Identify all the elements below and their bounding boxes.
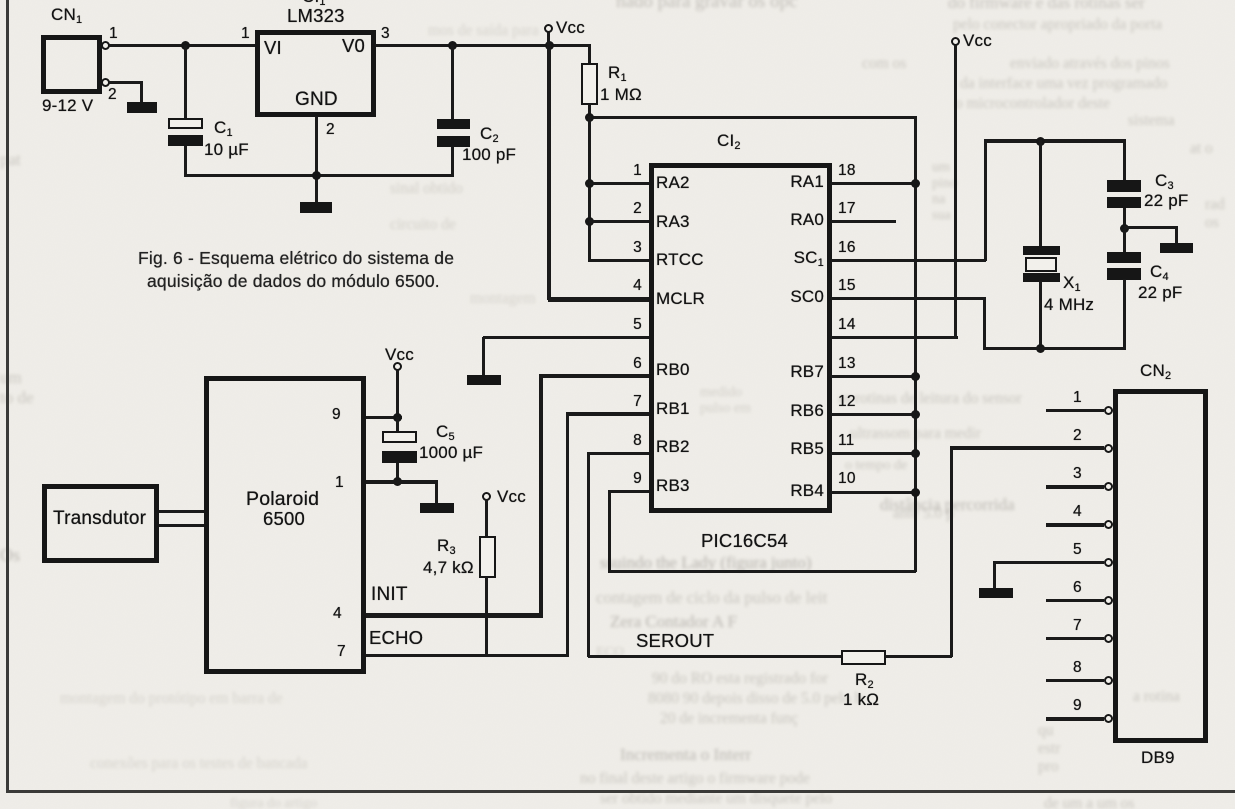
pin name RB2 xyxy=(656,438,690,456)
LM323 pin 3 number xyxy=(381,26,390,42)
junction node pin2 xyxy=(585,217,594,226)
CN2 pin 1 wire xyxy=(1046,409,1104,413)
label DB9 xyxy=(1141,749,1175,767)
junction node X1 top xyxy=(1036,137,1045,146)
CN1 pin 2 number xyxy=(108,87,117,103)
wire ground bus under regulator xyxy=(184,174,454,177)
pin number 2 xyxy=(620,201,642,217)
pin name RB7 xyxy=(770,363,824,381)
CN2 pin 5 wire xyxy=(993,561,1104,565)
junction node X1 bottom xyxy=(1036,344,1045,353)
wire C4 bottom stem xyxy=(1123,279,1126,350)
wire PIC pin 5 (Vss) xyxy=(483,336,650,340)
CN2 pin 6 circle xyxy=(1104,596,1113,605)
pin number 4 xyxy=(620,278,642,294)
wire PIC pin 18 xyxy=(831,182,916,185)
junction node C1 top xyxy=(181,41,190,50)
wire pin 5 down xyxy=(482,337,485,377)
LM323 pin 2 number xyxy=(326,122,335,138)
CN2 pin 8 circle xyxy=(1104,676,1113,685)
CN2 pin 9 number xyxy=(1073,698,1082,714)
pin name RA0 xyxy=(770,211,824,229)
wire pin5 down to ground xyxy=(993,562,996,589)
pin number 15 xyxy=(838,278,856,294)
label R2 value xyxy=(855,671,874,689)
wire transducer pair bottom xyxy=(159,524,204,527)
junction node pin13 xyxy=(911,372,920,381)
pin name MCLR xyxy=(656,290,705,308)
wire PIC pin 14 Vdd xyxy=(831,336,958,340)
capacitor C1 xyxy=(184,45,187,119)
pin number 3 xyxy=(620,240,642,256)
pin name RB1 xyxy=(656,400,690,418)
CN2 pin 2 circle xyxy=(1104,444,1113,453)
resistor R3 xyxy=(485,499,488,537)
wire CN1 pin2 down xyxy=(140,81,143,104)
label GND xyxy=(295,90,338,110)
label ECHO xyxy=(369,628,423,647)
junction node pin1/C5 xyxy=(393,477,402,486)
wire to PIC pin 1 xyxy=(589,182,650,185)
junction node pin10 xyxy=(911,488,920,497)
junction node Vcc tap xyxy=(545,41,554,50)
wire PIC pin 15 SC0 xyxy=(831,297,986,300)
crystal X1 xyxy=(1023,246,1060,255)
label C5 value xyxy=(436,423,455,441)
wire MCLR/Vcc vertical xyxy=(547,45,551,300)
wire to PIC pin 2 xyxy=(589,220,650,223)
label C4 value xyxy=(1150,263,1169,281)
CN2 pin 2 wire xyxy=(951,446,1104,450)
pin number 11 xyxy=(838,433,855,449)
wire SEROUT vertical xyxy=(587,453,590,657)
junction node pin2/ground bus xyxy=(312,171,321,180)
pin name RB0 xyxy=(656,361,690,379)
IC CI2 PIC16C54 xyxy=(649,163,832,513)
Polaroid pin number 7 xyxy=(337,644,346,660)
wire top rail down to C3 xyxy=(1123,139,1127,182)
capacitor C5 xyxy=(396,417,399,433)
label CN1 xyxy=(51,6,82,24)
wire LM323 pin2 down xyxy=(315,116,318,203)
wire PIC pin 10 xyxy=(831,491,916,494)
wire to PIC pin 3 xyxy=(589,259,650,262)
CN2 pin 8 number xyxy=(1073,660,1082,676)
CN1 pin 1 number xyxy=(109,26,118,42)
pin name RA3 xyxy=(656,213,690,231)
junction node C2 top xyxy=(448,41,457,50)
Vcc symbol (top center) xyxy=(547,32,550,46)
junction node pin1 xyxy=(585,179,594,188)
pin name RTCC xyxy=(656,251,704,269)
CN2 pin 7 circle xyxy=(1104,634,1113,643)
label Transdutor xyxy=(53,509,146,529)
wire pull-up bus vertical right xyxy=(914,116,917,572)
wire PIC pin 11 xyxy=(831,452,916,455)
capacitor C3 xyxy=(1107,180,1141,192)
pin number 1 xyxy=(620,163,642,179)
pin number 5 xyxy=(620,317,642,333)
wire Vcc down to pin 9 xyxy=(396,370,399,418)
wire ECHO vertical xyxy=(566,414,570,657)
junction node pin18 xyxy=(911,179,920,188)
CN2 pin 6 number xyxy=(1073,580,1082,596)
Vcc symbol (R3) xyxy=(482,492,491,501)
pin number 14 xyxy=(838,317,856,333)
wire to crystal ground xyxy=(1124,226,1178,229)
label R3 value xyxy=(437,537,456,555)
pin number 9 xyxy=(620,471,642,487)
LM323 pin 1 number xyxy=(241,26,250,42)
capacitor C2 xyxy=(451,45,454,120)
Vcc symbol (crystal area) xyxy=(951,37,960,46)
Polaroid pin number 9 xyxy=(332,407,341,423)
CN2 pin 9 wire xyxy=(1046,717,1104,721)
pin number 10 xyxy=(838,471,856,487)
wire X1 top stem xyxy=(1039,140,1042,247)
pin name RB3 xyxy=(656,477,690,495)
CN2 pin 4 wire xyxy=(1046,523,1104,527)
wire INIT horizontal xyxy=(366,613,543,618)
wire PIC pin 13 xyxy=(831,375,916,378)
wire X1 bottom stem xyxy=(1039,281,1042,349)
pin name RB4 xyxy=(770,482,824,500)
wire crystal bottom rail xyxy=(983,347,1127,351)
label V0 xyxy=(342,36,365,55)
resistor R2 xyxy=(841,650,886,665)
pin name SC1 xyxy=(770,249,824,267)
CN1 pin 1 circle xyxy=(101,41,110,50)
label LM323 xyxy=(287,6,345,25)
wire pull-up vertical to pins 1-3 xyxy=(588,116,591,262)
wire crystal top rail xyxy=(984,139,1127,143)
CN2 pin 7 number xyxy=(1073,618,1082,634)
ground CN1 pin2 xyxy=(127,102,157,113)
wire Polaroid pin 1 xyxy=(366,480,438,484)
box Polaroid 6500 xyxy=(204,376,366,674)
CN2 pin 5 number xyxy=(1073,542,1082,558)
CN2 pin 5 circle xyxy=(1104,558,1113,567)
wire transducer pair top xyxy=(159,510,204,513)
connector CN1 xyxy=(41,35,102,94)
wire pin1 down to ground xyxy=(435,482,438,504)
pin number 12 xyxy=(838,394,856,410)
ground LM323 xyxy=(300,202,332,213)
label CI1 (clipped at top) xyxy=(302,0,326,6)
CN2 pin 3 number xyxy=(1073,466,1082,482)
pin number 7 xyxy=(620,394,642,410)
wire CN1 pin1 to LM323 VI xyxy=(109,44,256,47)
ground crystal xyxy=(1160,243,1193,253)
junction node C3/C4 xyxy=(1120,224,1129,233)
label C2 value xyxy=(480,125,499,143)
label C3 value xyxy=(1155,172,1174,190)
wire RB3 loop down xyxy=(608,491,611,572)
pin number 16 xyxy=(838,240,856,256)
label C1 value xyxy=(214,119,233,137)
wire ECHO horizontal xyxy=(366,654,568,658)
pin name RB6 xyxy=(770,402,824,420)
pin name SC0 xyxy=(770,288,824,306)
wire PIC pin 17 xyxy=(831,220,896,223)
pin number 17 xyxy=(838,201,856,217)
wire R2 to CN2 pin2 riser xyxy=(885,655,952,658)
label CI2 xyxy=(717,132,741,150)
wire SC1 riser xyxy=(984,139,988,261)
resistor R1 xyxy=(588,45,591,64)
CN1 pin 2 circle xyxy=(101,78,110,87)
Vcc symbol (Polaroid) xyxy=(393,362,402,371)
label R1 value xyxy=(608,64,627,82)
label CN2 xyxy=(1140,362,1171,380)
caption Fig. 6 xyxy=(138,249,454,267)
junction node pin11 xyxy=(911,449,920,458)
decorative bleed-through print (back of page) xyxy=(616,0,797,13)
CN2 pin 8 wire xyxy=(1046,679,1104,683)
capacitor C4 xyxy=(1123,229,1126,253)
label Polaroid 6500 xyxy=(246,489,319,509)
box Transdutor xyxy=(42,484,159,563)
wire riser to CN2 pin 2 xyxy=(950,446,953,657)
CN2 pin 9 circle xyxy=(1104,714,1113,723)
junction node pin9/C5 xyxy=(393,413,402,422)
regulator U1 LM323 xyxy=(255,30,376,117)
wire SC0 drop xyxy=(983,297,987,350)
wire PIC pin 12 xyxy=(831,413,916,416)
label X1 value xyxy=(1063,274,1081,292)
wire Vcc to pin 14 xyxy=(954,45,957,337)
wire PIC pin 6 RB0 xyxy=(539,374,650,378)
pin number 6 xyxy=(620,356,642,372)
pin number 13 xyxy=(838,356,856,372)
Polaroid pin number 4 xyxy=(333,606,342,622)
CN2 pin 2 number xyxy=(1073,428,1082,444)
label 9-12 V xyxy=(42,97,93,115)
CN2 pin 4 number xyxy=(1073,504,1082,520)
label PIC16C54 xyxy=(701,531,788,550)
junction node pin12 xyxy=(911,410,920,419)
wire LM323 V0 output to R1 xyxy=(375,44,591,47)
Polaroid pin number 1 xyxy=(335,475,344,491)
CN2 pin 4 circle xyxy=(1104,520,1113,529)
label SEROUT xyxy=(636,631,714,650)
label INIT xyxy=(371,585,408,605)
wire pull-up node horizontal xyxy=(589,116,917,119)
frame bottom border line xyxy=(6,790,1235,793)
connector CN2 xyxy=(1113,389,1208,743)
CN2 pin 6 wire xyxy=(1046,599,1104,603)
wire Polaroid pin 9 xyxy=(366,416,402,420)
CN2 pin 3 circle xyxy=(1104,482,1113,491)
wire CN1 pin2 stub xyxy=(109,81,142,84)
pin name RA1 xyxy=(770,173,824,191)
CN2 pin 1 number xyxy=(1073,390,1082,406)
wire INIT vertical xyxy=(539,376,543,617)
wire PIC pin 16 SC1 xyxy=(831,259,986,262)
pin name RA2 xyxy=(656,174,690,192)
pin number 8 xyxy=(620,433,642,449)
label VI xyxy=(264,38,282,57)
wire MCLR to PIC pin 4 xyxy=(548,297,650,302)
wire PIC pin 8 RB2 xyxy=(587,452,650,455)
wire PIC pin 7 RB1 xyxy=(566,412,650,416)
wire RB3 loop bottom xyxy=(608,570,916,573)
pin name RB5 xyxy=(770,440,824,458)
ground Polaroid pin 1 xyxy=(420,503,454,513)
wire PIC pin 9 RB3 xyxy=(608,490,650,493)
CN2 pin 7 wire xyxy=(1046,637,1104,641)
wire C3 bottom stem xyxy=(1123,208,1126,230)
ground PIC pin 5 xyxy=(467,375,501,385)
junction node R1 bottom xyxy=(585,113,594,122)
ground CN2 pin 5 xyxy=(979,588,1013,598)
frame left border line xyxy=(6,0,9,791)
wire SEROUT horizontal xyxy=(588,655,841,658)
CN2 pin 1 circle xyxy=(1104,406,1113,415)
CN2 pin 3 wire xyxy=(1046,485,1104,489)
pin number 18 xyxy=(838,163,856,179)
